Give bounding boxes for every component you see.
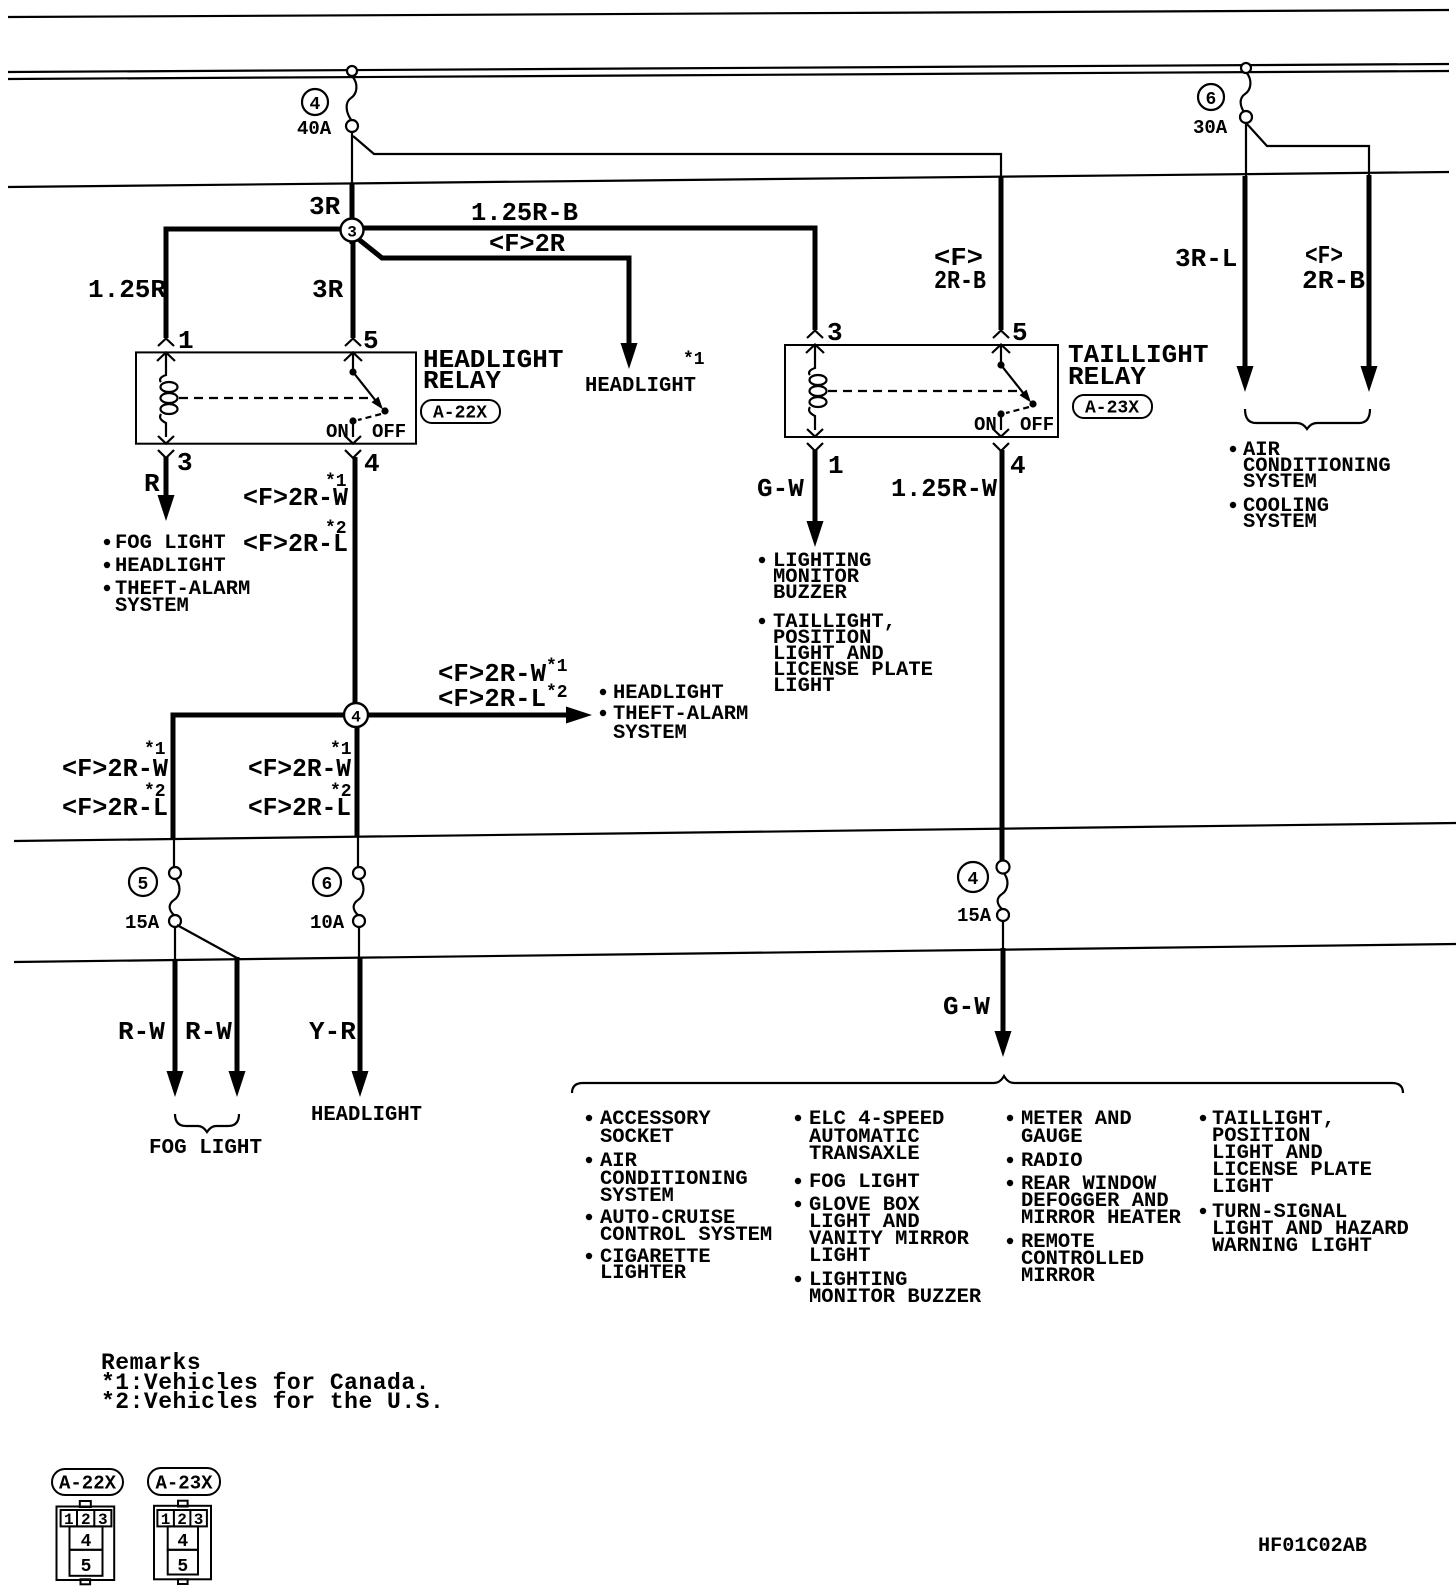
svg-text:SYSTEM: SYSTEM: [613, 722, 687, 745]
wire taillight pin4 down: [1000, 450, 1005, 862]
ignition bus line: [8, 172, 1449, 187]
svg-text:1.25R-W: 1.25R-W: [891, 474, 997, 504]
svg-text:TRANSAXLE: TRANSAXLE: [809, 1143, 920, 1166]
wire G-W from pin1: [813, 450, 818, 522]
svg-text:1: 1: [828, 451, 844, 481]
connector tag A-23X bottom: [148, 1468, 220, 1495]
svg-text:<F>2R-W: <F>2R-W: [62, 754, 168, 784]
svg-text:2R-B: 2R-B: [934, 266, 986, 296]
svg-text:R-W: R-W: [185, 1017, 232, 1047]
pin 1 chevrons: [157, 339, 175, 362]
wire fuse4 to ignition bus: [351, 131, 353, 184]
connector A-23X drawing: [154, 1501, 211, 1584]
svg-text:Y-R: Y-R: [309, 1017, 356, 1047]
relay coil: [160, 353, 177, 437]
svg-text:<F>2R-L: <F>2R-L: [62, 793, 168, 823]
svg-text:RADIO: RADIO: [1021, 1150, 1083, 1173]
svg-text:OFF: OFF: [1020, 414, 1054, 436]
node 3 wires: [166, 183, 815, 369]
svg-text:SYSTEM: SYSTEM: [600, 1185, 674, 1208]
power bus line A: [8, 64, 1449, 72]
svg-text:A-23X: A-23X: [156, 1473, 214, 1495]
headlight theft-alarm list: [600, 682, 749, 745]
brace fog light: [175, 1114, 239, 1132]
svg-text:A-22X: A-22X: [59, 1473, 117, 1495]
fuse 6 circled number: [313, 868, 341, 896]
relay connector tag A-23X: [1073, 395, 1152, 419]
relay connector tag A-22X: [421, 400, 500, 424]
svg-text:3: 3: [347, 224, 357, 242]
loads column 1: [586, 1108, 772, 1285]
wire fuse6 branch right: [1247, 124, 1369, 176]
loads column 4: [1200, 1108, 1409, 1258]
svg-text:15A: 15A: [957, 905, 992, 927]
svg-text:*1: *1: [683, 350, 705, 370]
svg-text:CONTROL SYSTEM: CONTROL SYSTEM: [600, 1224, 772, 1247]
svg-text:5: 5: [363, 326, 379, 356]
wire pin4 down to node4: [353, 457, 358, 716]
pin 3 chevrons: [158, 436, 174, 458]
fuse 5 15A: [169, 838, 237, 960]
taillight relay switch: [997, 345, 1036, 430]
air conditioning list: [1230, 439, 1391, 534]
loads column 2: [795, 1108, 982, 1309]
wire node3 left branch 1.25R: [166, 229, 354, 338]
fog light list: [104, 532, 251, 618]
svg-text:*2: *2: [546, 683, 568, 703]
svg-text:MONITOR BUZZER: MONITOR BUZZER: [809, 1286, 982, 1309]
node 3 junction circle: [341, 219, 364, 242]
svg-text:MIRROR: MIRROR: [1021, 1265, 1096, 1288]
fuse 4 40A: [346, 66, 358, 132]
svg-text:*2:Vehicles for the U.S.: *2:Vehicles for the U.S.: [101, 1389, 444, 1415]
svg-text:1: 1: [178, 326, 194, 356]
svg-text:*1: *1: [546, 657, 568, 677]
svg-text:OFF: OFF: [372, 421, 406, 443]
node 4 wires: [173, 707, 592, 839]
svg-text:5: 5: [177, 1557, 188, 1577]
svg-text:1.25R-B: 1.25R-B: [471, 198, 578, 228]
svg-text:<F>2R-L: <F>2R-L: [248, 793, 351, 823]
svg-text:ON: ON: [326, 421, 349, 443]
relay box A-23X: [785, 345, 1058, 437]
svg-text:ON: ON: [974, 414, 997, 436]
wire taillight pin5 feed: [999, 177, 1004, 330]
connector tag A-22X bottom: [52, 1469, 123, 1495]
svg-text:GAUGE: GAUGE: [1021, 1126, 1083, 1149]
pin 5 chevrons: [992, 331, 1010, 354]
svg-text:G-W: G-W: [943, 992, 990, 1022]
svg-text:R: R: [144, 469, 160, 499]
svg-text:4: 4: [1010, 451, 1026, 481]
svg-text:A-22X: A-22X: [433, 404, 487, 424]
connector A-22X drawing: [57, 1501, 115, 1584]
svg-text:<F>2R-L: <F>2R-L: [243, 529, 348, 559]
svg-text:3R-L: 3R-L: [1175, 244, 1237, 274]
wire R from pin3: [164, 457, 169, 497]
svg-text:5: 5: [1012, 318, 1028, 348]
lighting monitor list: [759, 550, 933, 698]
brace big loads: [572, 1076, 1403, 1093]
wire Y-R arrow: [358, 957, 363, 1072]
svg-text:WARNING LIGHT: WARNING LIGHT: [1212, 1235, 1372, 1258]
svg-text:LIGHTER: LIGHTER: [600, 1262, 687, 1285]
svg-text:SYSTEM: SYSTEM: [115, 595, 189, 618]
brace air conditioning: [1245, 409, 1370, 429]
fuse 6 10A: [353, 837, 365, 958]
svg-text:<F>2R-L: <F>2R-L: [438, 684, 546, 714]
svg-text:15A: 15A: [125, 912, 160, 934]
svg-text:5: 5: [138, 875, 149, 895]
power bus line B: [8, 71, 1449, 79]
svg-text:SOCKET: SOCKET: [600, 1126, 674, 1149]
svg-text:1.25R: 1.25R: [88, 275, 166, 305]
wire node4 right arrow: [355, 713, 568, 718]
fuse 4 right circled number: [958, 862, 988, 892]
fuse 4 circled number: [302, 89, 328, 115]
power bus line top: [8, 10, 1449, 17]
svg-text:40A: 40A: [297, 118, 332, 140]
svg-text:4: 4: [364, 449, 380, 479]
svg-text:SYSTEM: SYSTEM: [1243, 471, 1317, 494]
remarks block: [101, 1350, 444, 1415]
svg-text:4: 4: [968, 870, 979, 890]
svg-text:LIGHT: LIGHT: [809, 1245, 871, 1268]
relay switch: [349, 353, 388, 437]
svg-text:3: 3: [177, 448, 193, 478]
fuse 6 circled number: [1198, 84, 1224, 110]
svg-text:LIGHT: LIGHT: [773, 675, 835, 698]
wire node3 right branch 1.25R-B: [350, 228, 815, 330]
svg-text:4: 4: [310, 95, 321, 115]
svg-text:HEADLIGHT: HEADLIGHT: [311, 1104, 422, 1127]
pin 1 chevrons: [807, 429, 823, 451]
wire R-W arrow 2: [235, 957, 240, 1072]
fuse 6 30A: [1240, 63, 1252, 177]
wire 3R down to node 3: [350, 183, 355, 244]
wire node4 down branch: [355, 712, 360, 837]
taillight relay coil: [809, 345, 826, 430]
pin 3 chevrons: [806, 331, 824, 354]
svg-text:FOG LIGHT: FOG LIGHT: [809, 1171, 920, 1194]
svg-text:G-W: G-W: [757, 474, 804, 504]
bus line mid: [14, 823, 1456, 841]
svg-text:10A: 10A: [310, 912, 345, 934]
svg-text:30A: 30A: [1193, 117, 1228, 139]
fuse 4 15A: [997, 861, 1010, 951]
wire F2R-B right arrow: [1367, 175, 1372, 367]
node 4 junction circle: [344, 703, 368, 727]
svg-text:6: 6: [322, 875, 333, 895]
svg-text:HEADLIGHT: HEADLIGHT: [115, 555, 226, 578]
pin 5 chevrons: [344, 339, 362, 362]
svg-text:6: 6: [1206, 90, 1217, 110]
svg-text:RELAY: RELAY: [423, 366, 501, 396]
relay box A-22X: [136, 352, 416, 443]
fuse 5 circled number: [129, 868, 157, 896]
svg-text:A-23X: A-23X: [1085, 399, 1139, 419]
loads column 3: [1007, 1108, 1182, 1288]
wire node4 left branch: [173, 715, 357, 838]
wire R-W arrow 1: [173, 959, 178, 1072]
wire 3R-L arrow: [1243, 176, 1248, 367]
relay dashed link: [179, 397, 371, 399]
svg-text:RELAY: RELAY: [1068, 362, 1146, 392]
svg-text:3R: 3R: [312, 275, 344, 305]
svg-text:LIGHT: LIGHT: [1212, 1176, 1274, 1199]
svg-text:<F>2R-W: <F>2R-W: [243, 483, 348, 513]
svg-text:MIRROR HEATER: MIRROR HEATER: [1021, 1207, 1182, 1230]
svg-text:2R-B: 2R-B: [1302, 266, 1365, 296]
svg-text:SYSTEM: SYSTEM: [1243, 511, 1317, 534]
taillight relay dashed link: [828, 390, 1019, 392]
svg-text:R-W: R-W: [118, 1017, 165, 1047]
arrow R: [158, 495, 175, 521]
wire 3R node3 down to relay pin5: [351, 230, 356, 338]
svg-text:<F>2R-W: <F>2R-W: [248, 754, 351, 784]
svg-text:5: 5: [81, 1557, 92, 1577]
pin 4 chevrons: [345, 436, 361, 458]
svg-text:HEADLIGHT: HEADLIGHT: [585, 375, 696, 398]
wire fuse4 branch to taillight relay pin5: [353, 136, 1001, 178]
svg-text:4: 4: [351, 709, 361, 727]
bus line lower: [14, 944, 1456, 962]
svg-text:HF01C02AB: HF01C02AB: [1258, 1535, 1367, 1558]
svg-text:FOG LIGHT: FOG LIGHT: [115, 532, 226, 555]
wire node3 branch F2R to headlight: [352, 234, 629, 344]
svg-text:3: 3: [827, 318, 843, 348]
svg-text:FOG LIGHT: FOG LIGHT: [149, 1137, 262, 1160]
svg-text:<F>2R: <F>2R: [489, 229, 565, 259]
arrow F2R headlight: [621, 343, 638, 369]
wire G-W right arrow: [1001, 948, 1006, 1032]
svg-text:HEADLIGHT: HEADLIGHT: [613, 682, 724, 705]
pin 4 chevrons: [993, 429, 1009, 451]
svg-text:BUZZER: BUZZER: [773, 582, 848, 605]
svg-text:3R: 3R: [309, 192, 341, 222]
